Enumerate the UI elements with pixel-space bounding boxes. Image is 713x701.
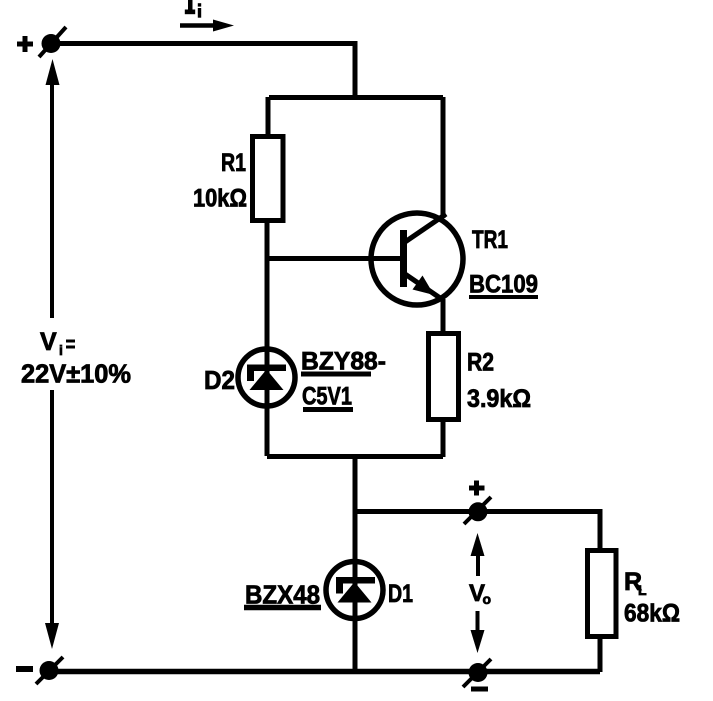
svg-text:V: V bbox=[40, 328, 57, 356]
svg-text:D2: D2 bbox=[204, 365, 235, 395]
svg-text:L: L bbox=[638, 582, 647, 598]
svg-text:R1: R1 bbox=[221, 149, 246, 177]
svg-text:68kΩ: 68kΩ bbox=[624, 600, 680, 628]
svg-text:D1: D1 bbox=[388, 580, 413, 608]
svg-text:R2: R2 bbox=[467, 349, 494, 377]
svg-text:10kΩ: 10kΩ bbox=[193, 185, 247, 213]
svg-text:22V±10%: 22V±10% bbox=[21, 361, 131, 389]
svg-text:3.9kΩ: 3.9kΩ bbox=[467, 385, 531, 413]
svg-text:C5V1: C5V1 bbox=[302, 383, 352, 411]
svg-text:TR1: TR1 bbox=[472, 226, 508, 254]
svg-text:i: i bbox=[59, 342, 63, 358]
svg-text:BZY88-: BZY88- bbox=[301, 348, 386, 376]
svg-text:o: o bbox=[483, 591, 492, 607]
svg-text:BC109: BC109 bbox=[469, 271, 538, 299]
